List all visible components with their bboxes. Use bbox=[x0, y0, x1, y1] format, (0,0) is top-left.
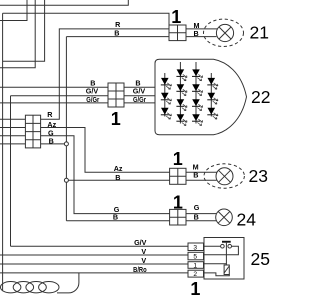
svg-text:B: B bbox=[194, 213, 199, 222]
switch internal wire pin2 bbox=[204, 273, 230, 276]
switch contact circles bbox=[221, 244, 232, 248]
wire B vertical distribution bbox=[65, 37, 67, 221]
wire V bus to switch pin 1 bbox=[0, 263, 188, 265]
svg-text:G/Gr: G/Gr bbox=[133, 95, 146, 104]
LED D14 bbox=[207, 108, 218, 119]
wire Az stub left edge to connector 2 bbox=[0, 127, 25, 129]
wire from top edge to left edge (net a) bbox=[0, 0, 128, 5]
wire B connector 23 to bulb 23 bbox=[186, 179, 217, 181]
svg-text:2: 2 bbox=[193, 271, 197, 278]
wire from top edge down, left to vertical trunk (net b) bbox=[3, 0, 45, 61]
wire stub G/V connector to LED housing bbox=[124, 95, 155, 97]
pin 1 cell bbox=[188, 262, 204, 269]
wire B branch to connector of lamp 24 bbox=[66, 220, 169, 222]
svg-text:1: 1 bbox=[173, 193, 183, 213]
svg-text:1: 1 bbox=[171, 7, 181, 27]
pin 3 cell bbox=[188, 243, 204, 251]
wire from top edge x27 to left edge bbox=[0, 0, 27, 21]
wire M connector 21 to bulb 21 bbox=[186, 28, 217, 30]
wire R stub left edge to connector 2 bbox=[0, 118, 25, 120]
svg-text:Az: Az bbox=[47, 120, 56, 129]
wire G/V vertical down to pin 3 bus bbox=[10, 96, 12, 247]
wire LED column 3 bbox=[195, 62, 197, 124]
svg-text:R: R bbox=[47, 110, 53, 119]
wire B to connector of lamp 21 bbox=[66, 36, 169, 38]
wire stub B connector to LED housing bbox=[124, 86, 155, 88]
switch 25 body bbox=[204, 238, 244, 280]
switch internal wire pin5 bbox=[204, 246, 239, 255]
svg-text:1: 1 bbox=[193, 262, 197, 269]
wire from top edge x35 to left edge bbox=[0, 0, 35, 68]
wire B from connector 2 to junction bbox=[41, 143, 67, 145]
LED D4 bbox=[176, 69, 187, 80]
svg-text:B/Ro: B/Ro bbox=[133, 265, 147, 274]
wire B connector 24 to bulb 24 bbox=[186, 220, 216, 222]
wire G/V to LED connector bbox=[11, 95, 109, 97]
switch internal wire pin3 bbox=[204, 245, 221, 247]
svg-text:1: 1 bbox=[111, 109, 121, 129]
wire riser from coil to B/Ro bus bbox=[57, 273, 79, 293]
switch actuator stem bbox=[225, 243, 227, 265]
svg-text:V: V bbox=[141, 247, 146, 256]
wire B stub left edge to connector 2 bbox=[0, 143, 25, 145]
pin 5 cell bbox=[188, 252, 204, 259]
svg-text:21: 21 bbox=[250, 22, 269, 42]
LED D13 bbox=[207, 93, 218, 104]
wire G/Gr to LED connector from left edge bbox=[0, 102, 108, 104]
LED D3 bbox=[161, 108, 172, 119]
svg-text:Az: Az bbox=[114, 164, 123, 173]
svg-text:B: B bbox=[113, 212, 118, 221]
wire B branch to connector of lamp 23 bbox=[66, 179, 169, 181]
switch contact bar bbox=[222, 241, 231, 243]
coil L1 bbox=[1, 282, 60, 293]
svg-text:23: 23 bbox=[249, 166, 268, 186]
svg-text:G/Gr: G/Gr bbox=[86, 95, 99, 104]
wire vertical trunk at left edge down to coil bbox=[2, 13, 4, 290]
bulb 21 bbox=[216, 24, 233, 41]
wire G connector 24 to bulb 24 bbox=[186, 213, 216, 215]
LED D5 bbox=[176, 84, 187, 95]
wire V bus to switch pin 5 bbox=[0, 254, 188, 256]
wire horizontal y13 from trunk to connector 1 of lamp 21 bbox=[3, 13, 169, 25]
wire Az from connector 2 to connector of lamp 23 bbox=[41, 128, 170, 173]
dashed housing of lamp 23 bbox=[204, 164, 244, 188]
switch lamp resistor bbox=[224, 265, 229, 275]
LED housing 22 bbox=[155, 59, 247, 135]
svg-text:1: 1 bbox=[190, 279, 200, 299]
wire M connector 23 to bulb 23 bbox=[186, 171, 217, 173]
junction node on B net at lamp 23 branch bbox=[64, 178, 68, 182]
LED D2 bbox=[161, 93, 172, 104]
wire stub G/Gr connector to LED housing bbox=[124, 102, 155, 104]
svg-text:V: V bbox=[141, 256, 146, 265]
switch internal wire pin1 bbox=[204, 263, 227, 265]
LED D7 bbox=[176, 114, 187, 125]
svg-text:25: 25 bbox=[251, 249, 270, 269]
LED D12 bbox=[207, 78, 218, 89]
wire R from connector 2 up to connector of lamp 21 bbox=[41, 29, 169, 119]
svg-text:5: 5 bbox=[193, 254, 197, 261]
wire G/V bus to switch pin 3 bbox=[11, 245, 189, 247]
wire LED column 2 bbox=[179, 62, 181, 124]
bulb 23 bbox=[216, 168, 233, 185]
pin 2 cell bbox=[188, 270, 204, 277]
svg-text:B: B bbox=[115, 173, 120, 182]
svg-text:B: B bbox=[193, 171, 198, 180]
svg-text:24: 24 bbox=[237, 210, 257, 230]
svg-text:G/V: G/V bbox=[134, 238, 147, 247]
wire LED column 1 bbox=[164, 73, 166, 117]
connector 1 of lamp 21 bbox=[169, 25, 186, 41]
wire G from connector 2 to connector of lamp 24 bbox=[41, 136, 170, 214]
junction node on B net at connector 2 bbox=[64, 142, 68, 146]
wire B/Ro bus to switch pin 2 bbox=[0, 272, 188, 274]
LED D9 bbox=[192, 84, 203, 95]
connector 1 of LED module 22 bbox=[108, 83, 124, 107]
svg-text:B: B bbox=[114, 28, 119, 37]
LED D6 bbox=[176, 99, 187, 110]
connector 1 of lamp 24 bbox=[170, 209, 186, 225]
LED D11 bbox=[192, 114, 203, 125]
dashed housing of lamp 21 bbox=[204, 19, 244, 46]
svg-text:B: B bbox=[49, 137, 54, 146]
connector 2 (4-way) bbox=[25, 115, 40, 148]
wire B connector 21 to bulb 21 bbox=[186, 36, 216, 38]
connector 1 of lamp 23 bbox=[170, 168, 186, 184]
LED D10 bbox=[192, 99, 203, 110]
svg-text:22: 22 bbox=[251, 87, 270, 107]
bulb 24 bbox=[216, 209, 233, 226]
LED D8 bbox=[192, 69, 203, 80]
svg-text:1: 1 bbox=[173, 149, 183, 169]
svg-text:B: B bbox=[193, 29, 198, 38]
wire LED column 4 bbox=[210, 73, 212, 117]
svg-text:G: G bbox=[194, 203, 200, 212]
LED D1 bbox=[161, 78, 172, 89]
wire B to LED connector from left edge bbox=[0, 86, 108, 88]
wire G stub left edge to connector 2 bbox=[0, 135, 25, 137]
svg-text:3: 3 bbox=[193, 244, 197, 251]
